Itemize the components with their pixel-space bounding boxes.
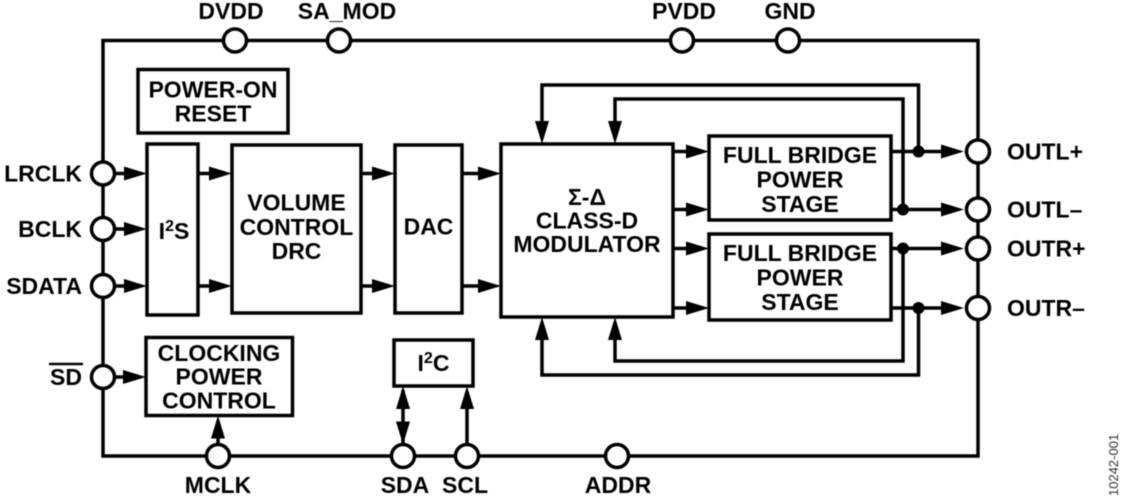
block DAC [395,145,462,313]
svg-text:Σ-Δ: Σ-Δ [568,184,606,210]
junction dot OUTR- [913,302,925,314]
wire SDA to I2C bidirectional [396,386,410,445]
pin MCLK [207,445,230,468]
svg-text:SDA: SDA [381,472,430,498]
pin OUTL- [967,198,990,221]
svg-text:OUTL+: OUTL+ [1007,139,1083,165]
wire DAC to MODULATOR bottom [462,279,501,293]
wire MODULATOR to FULL BRIDGE 1 input A [673,145,709,159]
junction dot OUTR+ [897,243,909,255]
svg-text:PVDD: PVDD [652,0,716,24]
wire LRCLK to I2S [115,167,148,181]
svg-text:DAC: DAC [404,214,454,240]
pin LRCLK [92,162,115,185]
feedback wire OUTL- to MODULATOR top inner loop [608,99,903,210]
block FULL BRIDGE POWER STAGE 2 [709,234,891,320]
wire SD to CLOCKING POWER CONTROL [115,370,147,384]
pin SA_MOD [328,29,351,52]
junction dot OUTL- [897,204,909,216]
block VOLUME CONTROL DRC [232,145,361,313]
wire MODULATOR to FULL BRIDGE 1 input B [673,203,709,217]
svg-text:10242-001: 10242-001 [1106,434,1121,496]
svg-text:OUTL–: OUTL– [1007,197,1083,223]
wire DAC to MODULATOR top [462,167,501,181]
pin SDATA [92,275,115,298]
pin OUTL+ [967,140,990,163]
pin BCLK [92,218,115,241]
wire SDATA to I2S [115,279,148,293]
svg-text:DVDD: DVDD [198,0,263,24]
pin OUTR- [967,297,990,320]
svg-text:FULL BRIDGE: FULL BRIDGE [723,240,877,266]
wire FULL BRIDGE 1 to OUTL- [891,203,964,217]
svg-text:VOLUME: VOLUME [247,190,345,216]
junction dot OUTL+ [913,146,925,158]
wire I2S to VOLUME CONTROL bottom [198,279,232,293]
block CLOCKING POWER CONTROL [146,338,293,416]
block Sigma-Delta CLASS-D MODULATOR [501,144,673,317]
svg-text:STAGE: STAGE [761,191,839,217]
svg-text:OUTR+: OUTR+ [1007,236,1086,262]
svg-text:CLASS-D: CLASS-D [536,208,638,234]
pin SDA [392,445,415,468]
wire MODULATOR to FULL BRIDGE 2 input A [673,242,709,256]
pin SD [92,366,115,389]
wire FULL BRIDGE 2 to OUTR+ [891,242,964,256]
svg-text:SA_MOD: SA_MOD [298,0,396,24]
block I2C [394,340,473,386]
svg-text:MODULATOR: MODULATOR [513,231,661,257]
svg-text:MCLK: MCLK [185,472,252,498]
svg-text:STAGE: STAGE [761,289,839,315]
wire VOLUME CONTROL to DAC top [361,167,395,181]
svg-text:CONTROL: CONTROL [240,214,354,240]
wire FULL BRIDGE 1 to OUTL+ [891,145,964,159]
svg-text:I2S: I2S [159,218,190,244]
svg-text:SD: SD [50,364,82,390]
pin label SD with overline [49,364,83,390]
svg-text:POWER: POWER [176,364,263,390]
svg-text:POWER: POWER [757,167,844,193]
block FULL BRIDGE POWER STAGE 1 [709,136,891,220]
svg-text:CONTROL: CONTROL [162,388,276,414]
wire BCLK to I2S [115,222,148,236]
feedback wire OUTR- to MODULATOR bottom outer loop [535,308,919,375]
svg-text:DRC: DRC [272,238,322,264]
svg-text:FULL BRIDGE: FULL BRIDGE [723,142,877,168]
chip boundary [103,41,978,457]
wire MODULATOR to FULL BRIDGE 2 input B [673,301,709,315]
svg-text:RESET: RESET [175,101,252,127]
wire SCL to I2C [460,386,474,445]
pin SCL [456,445,479,468]
wire VOLUME CONTROL to DAC bottom [361,279,395,293]
svg-text:CLOCKING: CLOCKING [158,340,281,366]
svg-text:GND: GND [764,0,815,24]
svg-text:I2C: I2C [418,350,450,376]
pin GND [777,29,800,52]
svg-text:OUTR–: OUTR– [1007,295,1085,321]
block POWER-ON RESET [138,70,288,134]
block I2S [147,144,198,315]
wire FULL BRIDGE 2 to OUTR- [891,301,964,315]
svg-text:POWER-ON: POWER-ON [148,77,277,103]
svg-text:BCLK: BCLK [18,216,82,242]
pin ADDR [606,445,629,468]
svg-text:LRCLK: LRCLK [4,161,82,187]
svg-text:SDATA: SDATA [6,273,82,299]
wire I2S to VOLUME CONTROL top [198,167,232,181]
svg-text:ADDR: ADDR [585,472,652,498]
feedback wire OUTL+ to MODULATOR top outer loop [535,85,919,152]
wire MCLK to CLOCKING POWER CONTROL [211,416,225,445]
svg-text:SCL: SCL [442,472,488,498]
feedback wire OUTR+ to MODULATOR bottom inner loop [608,249,903,362]
pin OUTR+ [967,237,990,260]
pin PVDD [671,29,694,52]
svg-text:POWER: POWER [757,265,844,291]
pin DVDD [224,29,247,52]
